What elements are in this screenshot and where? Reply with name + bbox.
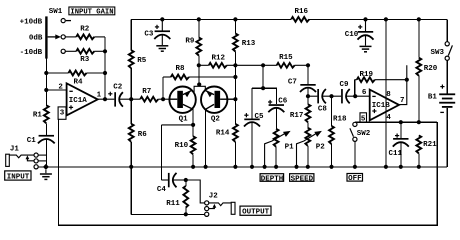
svg-text:IC1A: IC1A — [69, 97, 88, 105]
wire: junction down to R6 — [130, 99, 132, 124]
node: R7/R8/Q1 base junction — [161, 97, 165, 101]
node: C11 on ground rail — [399, 165, 403, 169]
resistor R10 — [175, 125, 196, 167]
svg-text:R11: R11 — [166, 200, 180, 208]
battery B1 — [428, 60, 455, 166]
wire: J1 tip contact to C1 column — [38, 154, 46, 156]
wire: output ground line — [131, 213, 204, 215]
op-amp IC1A — [58, 83, 101, 115]
wire: SW1 bar bottom down to R1 top (node dots at R4, pin2) — [45, 59, 47, 107]
capacitor C10 — [345, 19, 374, 39]
svg-text:SW3: SW3 — [431, 49, 445, 57]
resistor R12 — [199, 55, 277, 68]
svg-text:R17: R17 — [290, 112, 304, 120]
svg-text:R7: R7 — [142, 88, 151, 96]
switch SW1 common bar — [45, 16, 47, 58]
node: R4 left on input column — [44, 71, 48, 75]
svg-text:0dB: 0dB — [29, 35, 43, 43]
node: R19 feedback tap — [405, 78, 409, 82]
wire: left V+ drop x=131.2 rail to R5 — [130, 19, 132, 50]
node: feedback joins output — [103, 97, 107, 101]
capacitor C3 — [144, 19, 170, 39]
wire: ground rail y=166.8 — [38, 166, 447, 168]
switch SW2 — [350, 122, 371, 167]
jack J1 body — [6, 154, 10, 166]
svg-text:SW1: SW1 — [49, 8, 63, 16]
node: R10 on ground rail — [191, 165, 195, 169]
svg-text:R20: R20 — [424, 65, 438, 73]
jack J1 contacts — [34, 153, 38, 157]
capacitor C1 — [27, 135, 55, 145]
jack J1 switch arrow — [26, 155, 34, 160]
node: pin2 wire on input column — [44, 88, 48, 92]
resistor R6 — [129, 124, 148, 142]
capacitor C5 — [244, 113, 264, 167]
node: C8/C9/R18 junction — [329, 94, 333, 98]
node: R21 on ground rail — [417, 165, 421, 169]
svg-text:R5: R5 — [137, 57, 147, 65]
wire: bias return bottom line — [58, 119, 437, 225]
node: R14 on ground rail — [233, 165, 237, 169]
node: C2/R5/R6/R7 junction — [129, 97, 133, 101]
node: pin4 line on ground rail — [384, 165, 388, 169]
node: C3 on V+ rail — [160, 17, 164, 21]
wire: pin 2 input — [46, 89, 66, 91]
svg-text:C8: C8 — [318, 105, 328, 113]
svg-text:R6: R6 — [138, 131, 148, 139]
svg-text:R21: R21 — [423, 141, 437, 149]
node: Q1 emitter/R10 junction — [191, 123, 195, 127]
svg-text:SPEED: SPEED — [291, 175, 314, 183]
node: R20 on V+ rail — [417, 17, 421, 21]
svg-text:SW2: SW2 — [357, 130, 371, 138]
node: P2 wiper on ground rail — [294, 165, 298, 169]
resistor R5 — [129, 50, 147, 68]
boxed label OUTPUT — [240, 206, 271, 217]
resistor R2 — [65, 25, 105, 39]
svg-text:C9: C9 — [340, 81, 350, 89]
svg-text:R3: R3 — [80, 56, 90, 64]
capacitor C6 — [268, 98, 288, 129]
SW1 contact +10dB (open) with stub — [61, 19, 71, 23]
wire: collector split bar to Q1 and Q2 — [194, 86, 205, 92]
svg-text:3: 3 — [60, 109, 65, 117]
SW1 contact -10dB — [61, 49, 65, 53]
svg-text:R1: R1 — [33, 111, 43, 119]
node: Q2 emitter on ground rail — [204, 165, 208, 169]
node: C5/C6 tap on signal line — [261, 63, 265, 67]
potentiometer P2 body — [305, 128, 325, 167]
svg-text:R18: R18 — [333, 116, 347, 124]
node: R13 on V+ rail — [233, 17, 237, 21]
SW1 wiper arrow to 0dB contact — [48, 34, 66, 39]
capacitor C2 — [108, 84, 123, 107]
jack J2 body — [231, 202, 235, 214]
jack J2 switch arrow — [209, 204, 216, 209]
svg-text:OUTPUT: OUTPUT — [242, 209, 270, 217]
wire: C4 column down (crosses ground rail) — [160, 125, 162, 180]
potentiometer P2 wiper arrow — [297, 131, 322, 167]
node: R6 on ground rail — [129, 165, 133, 169]
capacitor C4 — [157, 173, 186, 194]
transistor Q1 — [169, 87, 195, 124]
wire: bias line y=122.2 — [355, 121, 437, 123]
node: C10 on V+ rail — [363, 17, 367, 21]
wire: V+/V- line through IC1B x=385.9 — [385, 19, 387, 166]
node: R9 on V+ rail — [197, 17, 201, 21]
node: R18 on ground rail — [329, 165, 333, 169]
wire: feedback column x=105 from R2 down to IC1A output — [104, 37, 106, 99]
resistor R17 — [290, 96, 311, 128]
boxed label DEPTH — [260, 174, 284, 184]
boxed label OFF — [347, 174, 363, 184]
resistor R7 — [140, 88, 170, 102]
capacitor C9 — [340, 81, 370, 103]
capacitor C11 — [389, 122, 409, 167]
svg-text:R19: R19 — [360, 71, 374, 79]
svg-text:R10: R10 — [175, 142, 189, 150]
wire: R5 bottom to junction — [130, 68, 132, 99]
resistor R19 — [355, 71, 407, 96]
switch SW3 — [431, 19, 453, 60]
node: R20/R21 on bias line — [417, 120, 421, 124]
node: C7/R17 tap on signal line — [306, 63, 310, 67]
potentiometer P1 body — [274, 129, 294, 167]
resistor R16 — [291, 8, 309, 22]
wire: V+ top rail y=19.4 — [131, 18, 447, 20]
resistor R1 — [33, 105, 49, 123]
resistor R3 — [65, 49, 105, 64]
wire: tap down and split to C5/C6 — [252, 65, 276, 118]
node: R4 right on feedback column — [103, 71, 107, 75]
wire: R1 bottom to C1 — [45, 123, 47, 135]
boxed label INPUT — [5, 171, 31, 182]
ground symbol at C3 — [156, 35, 168, 51]
node: P1 body on ground rail — [274, 165, 278, 169]
op-amp IC1B — [362, 89, 405, 122]
node: input ground diamond — [43, 164, 49, 170]
node: C5 on ground rail — [250, 165, 254, 169]
resistor R9 — [185, 19, 201, 65]
svg-text:R13: R13 — [242, 40, 256, 48]
svg-text:8: 8 — [386, 91, 391, 99]
svg-text:R16: R16 — [295, 8, 309, 16]
node: C4/R11/J2 junction — [184, 178, 188, 182]
node: pin8 line on V+ rail — [384, 17, 388, 21]
node: C7/C8/R17 junction — [306, 94, 310, 98]
wire: IC1A output to C2 — [98, 98, 115, 100]
resistor R15 — [277, 54, 308, 68]
resistor R20 — [416, 19, 437, 122]
svg-text:B1: B1 — [428, 94, 438, 102]
svg-text:C10: C10 — [345, 31, 359, 39]
node: C11 top on bias line — [399, 120, 403, 124]
svg-text:-10dB: -10dB — [20, 49, 43, 57]
node: P1 wiper on ground rail — [263, 165, 267, 169]
capacitor C7 — [288, 65, 316, 96]
node: Q2 base joins column — [233, 97, 237, 101]
svg-text:R12: R12 — [212, 55, 226, 63]
wire: J1 switch contact to ground column — [38, 160, 46, 162]
wire: Q2 emitter down to ground rail — [205, 108, 207, 167]
svg-text:Q2: Q2 — [211, 116, 221, 124]
svg-text:1: 1 — [97, 92, 102, 100]
svg-text:P1: P1 — [285, 144, 295, 152]
svg-text:C7: C7 — [288, 78, 297, 86]
pin 3 box of IC1A — [58, 107, 66, 119]
pin 5 box of IC1B — [360, 113, 367, 124]
resistor R21 — [416, 135, 437, 166]
svg-text:2: 2 — [58, 84, 63, 92]
wire: R6 bottom to ground rail — [130, 142, 132, 167]
node: R12/R15 on R13 column — [233, 63, 237, 67]
wire: Q1 emitter down — [192, 108, 194, 125]
wire: C1 bottom down to ground diamond — [45, 140, 47, 167]
node: collector split — [197, 82, 201, 86]
svg-text:INPUT: INPUT — [7, 174, 30, 182]
svg-text:7: 7 — [400, 97, 405, 105]
wire: junction left to C4 column — [161, 124, 193, 126]
wire: C2 to R7 junction — [119, 98, 140, 100]
jack J2 tip line with notch — [209, 203, 231, 206]
resistor R18 — [329, 96, 347, 167]
node: R3 joins column — [103, 49, 107, 53]
node: C5/C6 split — [261, 86, 265, 90]
resistor R13 — [233, 19, 256, 65]
wire: signal line right segment to IC1B output column — [399, 65, 407, 104]
resistor R4 — [46, 71, 105, 87]
node: C9/R19/pin6 junction — [353, 94, 357, 98]
svg-text:DEPTH: DEPTH — [261, 175, 284, 183]
node: R9/R12 junction — [197, 63, 201, 67]
node: SW2 on ground rail — [353, 165, 357, 169]
svg-text:INPUT GAIN: INPUT GAIN — [70, 8, 113, 16]
ground symbol at J1 — [40, 170, 52, 180]
node: P2 body on ground rail — [306, 165, 310, 169]
svg-text:J1: J1 — [10, 145, 20, 153]
svg-text:R15: R15 — [279, 54, 293, 62]
svg-text:+10dB: +10dB — [20, 19, 43, 27]
wire: R8 left lead up — [162, 77, 164, 99]
wire: R13 column y65.3 to 124 (Q2 base, R8 nodes) — [234, 65, 236, 124]
svg-text:6: 6 — [362, 89, 367, 97]
jack J2 contacts — [205, 201, 209, 205]
transistor Q2 — [201, 87, 235, 124]
svg-text:OFF: OFF — [348, 175, 362, 183]
svg-text:C1: C1 — [27, 137, 37, 145]
potentiometer P1 wiper arrow — [265, 131, 291, 167]
wire: collector feed x=198.8 down to split — [198, 65, 200, 84]
capacitor C8 — [308, 89, 341, 113]
jack J1 tip line with notch — [9, 155, 34, 158]
boxed label INPUT GAIN — [69, 7, 115, 16]
svg-text:IC1B: IC1B — [372, 102, 391, 110]
svg-text:4: 4 — [386, 114, 391, 122]
wire: ground branch down to output ground line — [130, 167, 132, 215]
svg-text:J2: J2 — [209, 193, 219, 201]
svg-text:R4: R4 — [74, 79, 84, 87]
resistor R14 — [216, 124, 238, 167]
svg-text:C3: C3 — [144, 31, 154, 39]
node: R11 bottom junction — [184, 212, 188, 216]
svg-text:R8: R8 — [176, 65, 186, 73]
svg-text:C2: C2 — [113, 84, 123, 92]
svg-text:P2: P2 — [316, 144, 326, 152]
node: R8 joins column — [233, 75, 237, 79]
svg-text:Q1: Q1 — [179, 116, 189, 124]
svg-text:C4: C4 — [157, 186, 167, 194]
boxed label SPEED — [290, 174, 314, 184]
wire: R11 top to J2 tip — [186, 180, 205, 203]
svg-text:R14: R14 — [216, 130, 230, 138]
resistor R8 — [163, 65, 235, 80]
svg-text:R9: R9 — [185, 37, 195, 45]
resistor R11 — [166, 180, 188, 214]
svg-text:R2: R2 — [80, 25, 90, 33]
ground symbol at C10 — [360, 36, 372, 52]
